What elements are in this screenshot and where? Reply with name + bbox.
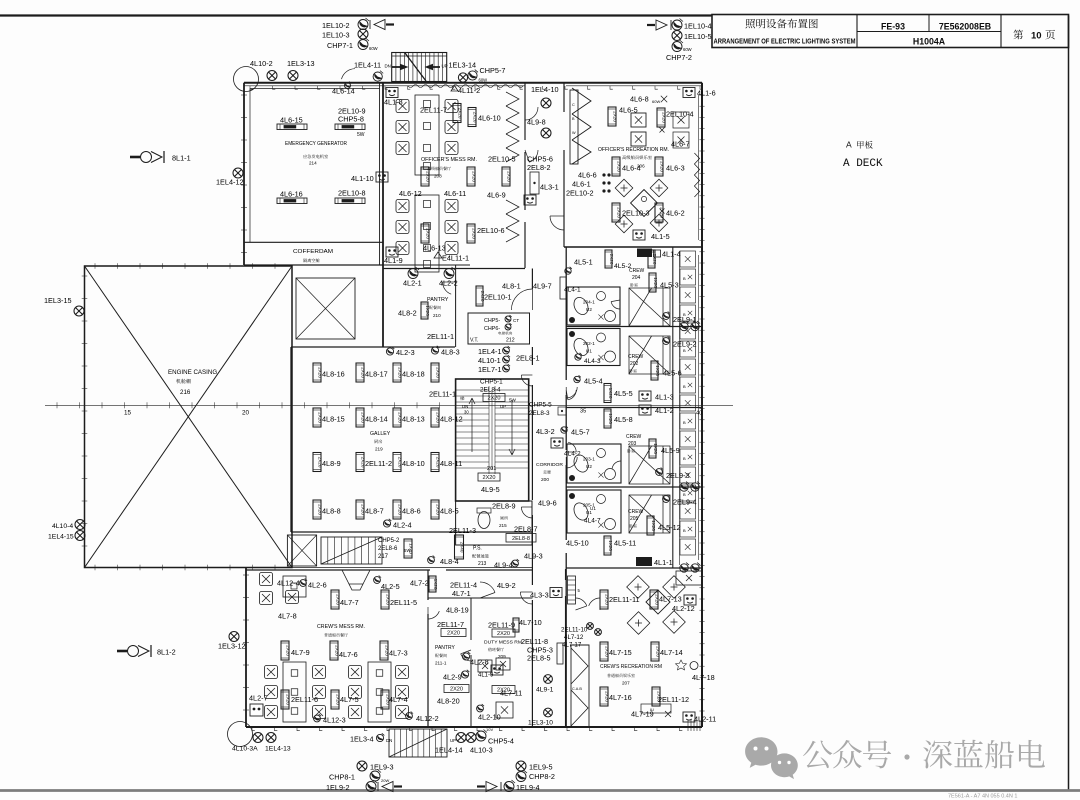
label 4L6-9 fixture: [502, 167, 512, 186]
svg-text:2X20: 2X20: [472, 228, 477, 239]
corridor left wall upper: [531, 347, 533, 365]
svg-text:2EL11-3: 2EL11-3: [449, 526, 476, 535]
svg-text:215: 215: [499, 523, 507, 528]
svg-text:4L1-6: 4L1-6: [697, 89, 716, 98]
svg-text:203-1: 203-1: [583, 457, 595, 462]
svg-text:4L5-3: 4L5-3: [660, 281, 679, 290]
plan bottom wall: [246, 726, 702, 728]
svg-text:4L6-16: 4L6-16: [280, 190, 303, 199]
watermark text 公众号·深蓝船电: [803, 741, 832, 769]
svg-text:4L8-1: 4L8-1: [502, 282, 521, 291]
davit circle bottom left: [228, 722, 253, 747]
svg-text:4L2-3: 4L2-3: [396, 348, 415, 357]
corridor right wall: [565, 247, 567, 380]
svg-text:4L10-3: 4L10-3: [470, 746, 493, 755]
svg-text:1EL4-12: 1EL4-12: [216, 178, 244, 187]
svg-text:CHP5-1: CHP5-1: [480, 379, 503, 386]
svg-text:4L9-6: 4L9-6: [538, 499, 557, 508]
svg-text:4L9-5: 4L9-5: [481, 485, 500, 494]
crew mess left wall: [245, 568, 247, 728]
svg-text:2EL8-6: 2EL8-6: [378, 546, 398, 552]
svg-text:2X20: 2X20: [458, 108, 463, 119]
crew rec sofa left: [571, 645, 589, 727]
svg-text:2EL10-3: 2EL10-3: [622, 209, 650, 218]
crew mess right wall: [427, 570, 429, 600]
svg-text:10V: 10V: [486, 727, 493, 732]
officer's mess right wall: [524, 83, 526, 140]
svg-text:CHP6-: CHP6-: [484, 326, 500, 332]
svg-text:4L5-7: 4L5-7: [571, 428, 590, 437]
lights 4L10-3A 1EL4-13: [253, 733, 263, 743]
fixture 2EL10-3: [612, 203, 622, 222]
svg-text:4L9-8: 4L9-8: [527, 118, 546, 127]
label 4L2-6: [300, 579, 307, 587]
svg-text:4L6-3: 4L6-3: [666, 164, 685, 173]
fixture 4L6-3: [655, 157, 665, 176]
svg-text:4L3-3: 4L3-3: [530, 591, 549, 600]
svg-text:B: B: [683, 420, 686, 425]
engine casing diagonal 1: [85, 266, 293, 568]
svg-text:4L8-8: 4L8-8: [322, 507, 341, 516]
svg-text:4L6-9: 4L6-9: [487, 191, 506, 200]
clock 4L1-4 dark box: [637, 249, 652, 258]
svg-text:5W: 5W: [509, 398, 517, 403]
svg-text:4L6-8: 4L6-8: [630, 95, 649, 104]
svg-text:DUTY MESS RM: DUTY MESS RM: [484, 640, 522, 646]
lobby settee chevrons: [572, 88, 591, 164]
svg-text:1EL10-3: 1EL10-3: [322, 31, 350, 40]
galley bottom wall: [291, 531, 532, 533]
svg-text:4L7-5: 4L7-5: [340, 695, 359, 704]
svg-text:2EL11-6: 2EL11-6: [291, 695, 318, 704]
fixture 2EL10-4: [657, 108, 667, 127]
fixture 4L6-2: [655, 203, 665, 222]
svg-text:H1004A: H1004A: [913, 36, 946, 46]
svg-text:2X20: 2X20: [660, 161, 665, 172]
svg-text:4L8-13: 4L8-13: [402, 415, 425, 424]
fixture 4L6-4: [612, 157, 622, 176]
svg-text:4L2-4: 4L2-4: [393, 521, 412, 530]
hull bottom hatch right: [688, 720, 700, 731]
svg-text:35: 35: [580, 409, 586, 415]
svg-text:1EL9-2: 1EL9-2: [326, 783, 350, 792]
title block text CN 照明设备布置图: [745, 19, 754, 28]
svg-text:4L8-2: 4L8-2: [398, 309, 417, 318]
lower fixtures 4L6-13 2EL10-6: [421, 224, 431, 243]
svg-text:2EL10-2: 2EL10-2: [566, 189, 594, 198]
svg-text:U2: U2: [586, 464, 592, 469]
svg-text:2X20: 2X20: [497, 631, 510, 637]
svg-text:E4L11-1: E4L11-1: [442, 254, 469, 263]
officer's mess chairs upper right: [445, 100, 458, 113]
svg-text:4L8-7: 4L8-7: [365, 507, 384, 516]
svg-text:7E562008EB: 7E562008EB: [939, 22, 991, 32]
svg-text:B: B: [683, 492, 686, 497]
crew mess chairs left block: [265, 666, 278, 679]
svg-text:213: 213: [478, 561, 487, 567]
svg-text:1X20: 1X20: [409, 543, 414, 554]
svg-text:4L2-5: 4L2-5: [381, 582, 400, 591]
svg-text:CREW: CREW: [628, 354, 644, 360]
svg-text:2X20: 2X20: [473, 112, 478, 123]
svg-text:W: W: [572, 131, 576, 135]
officer's mess chairs lower right: [445, 200, 458, 213]
svg-text:214: 214: [309, 161, 317, 166]
door arc lobby mid: [529, 150, 538, 162]
trunk rect near cabin 204: [560, 277, 566, 299]
fluorescent 4L6-10: [468, 108, 478, 127]
svg-text:U1: U1: [590, 506, 596, 511]
svg-text:DN: DN: [385, 64, 391, 69]
crew mess table left: [283, 662, 306, 722]
svg-text:2X20: 2X20: [426, 228, 431, 239]
svg-text:4L6-14: 4L6-14: [332, 87, 355, 96]
svg-text:4L7-4: 4L7-4: [389, 695, 408, 704]
svg-text:1EL10-2: 1EL10-2: [322, 21, 350, 30]
svg-text:4L12-3: 4L12-3: [323, 716, 346, 725]
svg-text:B: B: [683, 312, 686, 317]
svg-text:C: C: [572, 103, 575, 107]
cabin 202 bathroom 202-1 U1: [567, 329, 620, 366]
svg-text:2X20: 2X20: [286, 694, 291, 705]
svg-text:CORRIDOR: CORRIDOR: [536, 462, 564, 468]
light 4L2-4: [383, 519, 391, 527]
svg-text:CHP8-1: CHP8-1: [329, 773, 355, 782]
svg-text:2EL8-7: 2EL8-7: [514, 525, 538, 534]
svg-text:2EL8-5: 2EL8-5: [527, 654, 551, 663]
svg-text:4L7-8: 4L7-8: [278, 612, 297, 621]
svg-text:4L6-11: 4L6-11: [444, 189, 466, 198]
svg-text:4L8-3: 4L8-3: [441, 348, 460, 357]
svg-text:2X20: 2X20: [286, 645, 291, 656]
svg-text:B: B: [683, 456, 686, 461]
svg-text:1X20: 1X20: [653, 443, 658, 454]
svg-text:4L1-1: 4L1-1: [654, 558, 673, 567]
officers recreation bottom wall: [564, 246, 702, 248]
svg-text:4L2-9: 4L2-9: [443, 673, 462, 682]
svg-text:4L6-2: 4L6-2: [666, 209, 685, 218]
bottom block top wall / P.S. passage: [246, 569, 430, 571]
svg-text:OFFICER'S MESS RM.: OFFICER'S MESS RM.: [421, 157, 477, 163]
svg-text:4L1-10: 4L1-10: [351, 174, 374, 183]
svg-text:20: 20: [242, 410, 250, 417]
svg-text:UP: UP: [442, 64, 448, 69]
svg-text:CHP5-7: CHP5-7: [480, 66, 506, 75]
svg-text:2EL10-8: 2EL10-8: [338, 189, 366, 198]
svg-text:4L7-10: 4L7-10: [519, 618, 542, 627]
svg-text:4L1-3: 4L1-3: [655, 393, 674, 402]
svg-text:1EL7-1: 1EL7-1: [478, 365, 502, 374]
svg-text:B: B: [683, 384, 686, 389]
centerline: [45, 404, 733, 406]
svg-text:1EL3-15: 1EL3-15: [44, 296, 72, 305]
emergency generator room left wall: [243, 83, 245, 265]
svg-text:4L7-11: 4L7-11: [500, 689, 522, 698]
svg-text:CREW'S RECREATION RM: CREW'S RECREATION RM: [600, 664, 662, 670]
svg-text:2EL11-7: 2EL11-7: [420, 106, 447, 115]
svg-text:1EL9-3: 1EL9-3: [370, 763, 394, 772]
svg-text:2EL11-1: 2EL11-1: [427, 332, 454, 341]
svg-text:1EL4-10: 1EL4-10: [531, 85, 559, 94]
berth lights on cabin divider walls: [680, 321, 689, 331]
right wall stiffener ticks: [699, 94, 704, 96]
svg-text:4L8-11: 4L8-11: [440, 459, 462, 468]
svg-text:1X20: 1X20: [653, 277, 658, 288]
fixture 2EL10-1: [476, 286, 485, 306]
settee chevrons right: [506, 92, 519, 162]
svg-text:2EL10-6: 2EL10-6: [477, 226, 505, 235]
label 4L2-5: [374, 576, 381, 584]
corridor segment bottom left wall: [531, 570, 533, 585]
svg-text:CHP5-2: CHP5-2: [378, 538, 400, 544]
svg-text:CHP7-2: CHP7-2: [666, 53, 692, 62]
svg-text:4L7-3: 4L7-3: [389, 649, 408, 658]
svg-text:1EL3-14: 1EL3-14: [449, 61, 477, 70]
cabin wall 202/203: [566, 407, 702, 409]
svg-text:217: 217: [378, 554, 389, 560]
svg-text:OFFICER'S RECREATION RM.: OFFICER'S RECREATION RM.: [598, 147, 669, 153]
title block frame: [712, 15, 1069, 48]
svg-text:1X20: 1X20: [433, 579, 438, 590]
fixture 4L7-15: [600, 642, 610, 661]
title block page 第 10 页: [1013, 30, 1023, 40]
svg-text:1X20: 1X20: [608, 540, 613, 551]
svg-text:4L3-1: 4L3-1: [540, 183, 559, 192]
light CHP7-2 cluster: [672, 40, 683, 52]
bottom gray rule: [0, 789, 1080, 792]
stairwell 201 box: [456, 379, 529, 501]
svg-text:PANTRY: PANTRY: [427, 297, 449, 303]
svg-text:2EL8-3: 2EL8-3: [529, 410, 550, 417]
label 4L8-4: [428, 556, 435, 564]
svg-text:P.S.: P.S.: [473, 546, 482, 552]
emergency generator room right wall (double): [379, 83, 381, 265]
svg-text:205: 205: [630, 516, 639, 522]
settee chevrons lower: [506, 200, 519, 242]
crew recreation left wall: [565, 569, 567, 580]
svg-text:A: A: [846, 140, 852, 150]
svg-text:4L6-13: 4L6-13: [423, 244, 446, 253]
svg-text:2EL11-1: 2EL11-1: [429, 390, 456, 399]
svg-text:4L10-4: 4L10-4: [52, 523, 73, 530]
svg-text:4L4-1: 4L4-1: [564, 287, 581, 294]
svg-text:4L6-4: 4L6-4: [622, 164, 641, 173]
svg-text:211-1: 211-1: [435, 661, 447, 666]
light 1EL3-12 outside: [229, 632, 239, 642]
svg-text:4L8-6: 4L8-6: [402, 507, 421, 516]
svg-text:4L10-1: 4L10-1: [478, 356, 501, 365]
svg-text:U2: U2: [586, 307, 592, 312]
svg-text:1EL3-12: 1EL3-12: [218, 642, 246, 651]
svg-text:2EL8-8: 2EL8-8: [512, 536, 530, 542]
svg-text:4L11-2: 4L11-2: [458, 86, 480, 95]
engine casing diagonal 2: [85, 266, 293, 568]
cabin 202 bed: [629, 336, 670, 374]
svg-text:V.T.: V.T.: [470, 338, 478, 344]
cabin 203 bathroom 203-1 U2: [567, 444, 621, 483]
clock 4L1-9: [386, 247, 398, 257]
corner circle davit: [234, 67, 259, 92]
labels 4L1-3 4L1-2: [639, 391, 651, 401]
svg-text:2EL11-11: 2EL11-11: [609, 595, 640, 604]
clock 4L1-8: [386, 88, 398, 98]
svg-text:1EL4-1: 1EL4-1: [478, 347, 502, 356]
pantry211/dutymess top wall: [428, 597, 532, 599]
door arc lobby bottom: [550, 216, 564, 230]
door arc pantry210: [443, 282, 452, 294]
svg-text:ENGINE CASING: ENGINE CASING: [168, 369, 217, 376]
svg-text:2EL11-12: 2EL11-12: [658, 695, 689, 704]
svg-text:4L4-2: 4L4-2: [564, 451, 581, 458]
fixture 2EL11-12: [652, 687, 662, 706]
cabin 204 bed: [629, 288, 670, 326]
svg-text:2EL8-1: 2EL8-1: [516, 354, 540, 363]
crew rec door arcs: [576, 598, 587, 606]
svg-text:PANTRY: PANTRY: [435, 645, 455, 651]
door arc corridor top: [511, 289, 532, 310]
svg-text:4L2-2: 4L2-2: [439, 279, 458, 288]
svg-text:2X20: 2X20: [487, 395, 500, 401]
mid stair by galley: [321, 537, 382, 564]
svg-text:4L8-10: 4L8-10: [402, 459, 425, 468]
svg-text:30: 30: [464, 410, 469, 415]
label 4L2-12: [684, 595, 696, 605]
svg-text:4L2-6: 4L2-6: [308, 581, 327, 590]
svg-text:4L2-1: 4L2-1: [403, 279, 422, 288]
VT room 212 box: [468, 313, 530, 344]
svg-text:CHP7-1: CHP7-1: [327, 41, 353, 50]
svg-text:CREW: CREW: [629, 268, 645, 274]
mid row fixtures 4L6-12 4L6-11 4L6-9: [421, 167, 431, 186]
svg-text:2X20: 2X20: [482, 475, 495, 481]
svg-text:2X20: 2X20: [617, 161, 622, 172]
crew mess chairs top row: [260, 573, 273, 586]
light 1EL10-5 cluster: [672, 31, 682, 41]
svg-text:40: 40: [696, 411, 702, 417]
svg-text:4L7-6: 4L7-6: [339, 650, 358, 659]
svg-text:CHP5-: CHP5-: [484, 318, 500, 324]
svg-text:4L7-15: 4L7-15: [609, 648, 632, 657]
galley fixture row3: [313, 453, 323, 472]
svg-text:2EL11-10: 2EL11-10: [561, 627, 588, 634]
svg-text:2X20: 2X20: [472, 171, 477, 182]
svg-text:5W: 5W: [357, 132, 365, 138]
svg-text:DN: DN: [462, 404, 468, 409]
pantry/duty mess divider: [470, 598, 472, 640]
svg-text:1EL10-5: 1EL10-5: [684, 32, 712, 41]
labels 4L12-3 4L12-2: [314, 714, 321, 722]
svg-text:1EL9-4: 1EL9-4: [516, 783, 540, 792]
cabin 204 bathroom 204-1 U2: [567, 287, 620, 325]
fixture 2EL11-5: [381, 590, 391, 609]
svg-text:20W: 20W: [381, 778, 389, 783]
svg-text:1X20: 1X20: [608, 413, 613, 424]
svg-text:2EL10-4: 2EL10-4: [666, 110, 694, 119]
crew mess lower fixtures: [281, 690, 291, 709]
label 4L2-11: [683, 712, 695, 722]
svg-text:4L4-3: 4L4-3: [584, 358, 601, 365]
svg-text:4L5-9: 4L5-9: [661, 446, 680, 455]
bottom external stair: [389, 729, 447, 757]
svg-text:4L2-12: 4L2-12: [672, 604, 695, 613]
svg-text:2X20: 2X20: [426, 171, 431, 182]
svg-text:B: B: [683, 528, 686, 533]
hatch box bottom of engine casing: [287, 535, 316, 566]
officer's mess chairs upper left: [396, 100, 409, 113]
cabin wall 203/205: [566, 486, 702, 488]
svg-text:200: 200: [541, 477, 549, 483]
closet strip C.B.W: [570, 90, 578, 164]
svg-text:2X40: 2X40: [460, 542, 465, 553]
lobby right wall: [563, 83, 565, 112]
light cluster 1EL9-5 CHP8-2 1EL9-4: [516, 761, 526, 771]
svg-text:2X20: 2X20: [447, 630, 460, 636]
svg-text:2X20: 2X20: [507, 171, 512, 182]
svg-text:15: 15: [124, 410, 132, 417]
svg-text:1EL3-10: 1EL3-10: [528, 720, 553, 727]
svg-text:4L8-12: 4L8-12: [440, 415, 463, 424]
crew mess chairs right block: [349, 666, 362, 679]
svg-text:4L1-4: 4L1-4: [662, 250, 681, 259]
svg-text:2EL8-4: 2EL8-4: [480, 387, 501, 394]
label 4L1-1: [636, 557, 652, 566]
officer's mess table lower: [415, 195, 439, 272]
officer's mess chairs lower left: [396, 200, 409, 213]
svg-text:A DECK: A DECK: [843, 158, 883, 170]
svg-text:4L5-10: 4L5-10: [566, 539, 589, 548]
svg-text:60W: 60W: [683, 47, 692, 52]
svg-text:1EL4-14: 1EL4-14: [435, 746, 463, 755]
svg-text:4L8-14: 4L8-14: [365, 415, 388, 424]
svg-text:4L7-2: 4L7-2: [410, 579, 429, 588]
svg-text:10: 10: [1031, 31, 1042, 42]
svg-text:1EL4-13: 1EL4-13: [265, 746, 291, 753]
outer right wall: [701, 83, 703, 727]
fixture 4L7-13: [650, 590, 660, 609]
svg-text:4L4-7: 4L4-7: [584, 518, 601, 525]
svg-text:2X20: 2X20: [613, 111, 618, 122]
svg-text:4L7-1: 4L7-1: [452, 589, 471, 598]
svg-text:60W: 60W: [369, 46, 378, 51]
light 1EL4-12 outside: [233, 168, 243, 178]
stair arrows: [392, 66, 400, 68]
svg-text:4L7-13: 4L7-13: [659, 595, 682, 604]
cabin 205 bed: [629, 495, 670, 533]
crew mess mid fixtures: [281, 641, 291, 660]
galley fixture row1: [313, 363, 323, 382]
sheet top border line: [0, 14, 712, 16]
searchlight 8L1-2: [117, 645, 151, 657]
svg-text:CREW: CREW: [626, 434, 642, 440]
cabin 203 bed: [629, 446, 670, 484]
svg-text:1X20: 1X20: [655, 365, 660, 376]
fixture 2EL11-11: [600, 590, 610, 609]
svg-text:2EL10-1: 2EL10-1: [484, 293, 512, 302]
light 4L9-1 corridor: [544, 675, 553, 684]
recreation tables with x: [631, 113, 646, 127]
svg-text:1X20: 1X20: [651, 520, 656, 531]
engine casing ticks bottom: [94, 565, 96, 571]
engine casing ticks left: [82, 275, 88, 277]
svg-text:ARRANGEMENT OF ELECTRIC LIGHTI: ARRANGEMENT OF ELECTRIC LIGHTING SYSTEM: [714, 37, 856, 46]
engine casing hatch box with X: [296, 278, 355, 339]
svg-text:219: 219: [375, 447, 383, 452]
svg-text:CT: CT: [513, 318, 519, 323]
svg-text:4L1-9: 4L1-9: [384, 256, 403, 265]
light 1EL3-10 bottom: [544, 708, 553, 717]
svg-text:2EL11-7: 2EL11-7: [437, 620, 464, 629]
svg-text:204: 204: [632, 275, 641, 281]
